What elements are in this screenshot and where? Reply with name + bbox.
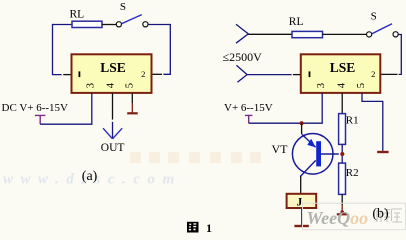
svg-text:J: J [297,196,303,208]
wire pin5 to ground (b) [362,93,383,151]
svg-text:VT: VT [272,142,289,156]
svg-text:RL: RL [289,16,304,28]
switch S blade (a) [122,15,142,24]
input terminal chevron lower (b) [236,65,247,82]
pin 1 (b) [309,71,311,77]
arrowhead OUT (a) [103,128,122,139]
wire switch to right corner (a) [148,24,170,26]
watermark faint orange row (center) [130,152,261,163]
wire top-left to resistor RL (a) [53,24,73,26]
wire left vertical (a) [53,24,62,75]
svg-text:OUT: OUT [101,142,125,154]
junction node base/R1/R2 (b) [340,152,344,156]
svg-text:5: 5 [125,83,136,88]
wire resistor to switch (a) [102,24,116,26]
junction node emitter/V+ (b) [300,121,304,125]
ground R2 (b) [337,213,347,215]
wire right vertical (a) [163,24,170,74]
figure caption 图 1 [187,221,212,235]
resistor RL (b) [292,31,323,37]
switch S throw contact (a) [143,22,148,27]
watermark WeeQoo box [303,203,406,230]
input terminal chevron top (b) [236,24,248,43]
svg-text:5: 5 [356,83,367,88]
wire emitter vertical (b) [301,123,303,134]
svg-text:LSE: LSE [330,60,356,75]
svg-text:3: 3 [85,83,96,88]
svg-text:2: 2 [371,69,375,79]
relay J body [287,194,317,208]
resistor RL (a) [72,21,102,27]
switch S throw contact (b) [393,32,398,37]
wire terminal to resistor RL (b) [248,33,292,35]
supply tick (b) [245,115,253,123]
svg-text:DC V+ 6--15V: DC V+ 6--15V [2,102,69,114]
switch S pole contact (a) [116,22,121,27]
wire pin4 output vertical (a) [112,93,114,120]
transistor Q1 VT circle [292,134,333,175]
resistor R1 [339,114,346,145]
svg-text:(b): (b) [372,207,389,222]
wire pin3 vertical (a) [91,93,93,125]
transistor VT base bar [316,141,321,166]
wire pin3 vertical (b) [321,93,323,124]
switch S blade (b) [372,24,392,34]
wire pin4 vertical (b) [341,93,343,114]
wire R1 to R2 (b) [341,144,343,163]
svg-text:3: 3 [316,83,327,88]
watermark CJK glyphs [377,209,402,222]
wire supply to pin3 (b) [249,122,323,124]
svg-text:RL: RL [70,9,85,21]
transistor VT collector lead [300,160,316,176]
transistor VT emitter lead [302,134,316,147]
transistor VT emitter arrowhead [307,139,315,148]
supply tick (a) [35,115,45,124]
svg-text:(a): (a) [82,169,98,184]
svg-text:≤2500V: ≤2500V [223,50,263,64]
svg-text:4: 4 [337,82,348,88]
wire pin2 stub (a) [152,73,162,75]
svg-text:WeeQoo: WeeQoo [307,208,369,228]
ground J (b) [294,225,308,227]
ground (a) [127,112,138,114]
junction node R2 ground (b) [340,210,344,214]
svg-text:S: S [371,10,377,22]
wire pin1 stub (b) [293,74,301,76]
svg-text:2: 2 [141,69,145,79]
wire J to ground (b) [301,208,303,225]
wire pin2 stub (b) [381,73,398,75]
svg-text:S: S [120,1,126,13]
svg-text:R1: R1 [346,115,359,127]
pin 1 (a) [79,71,81,77]
switch S pole contact (b) [367,32,372,37]
svg-text:1: 1 [206,221,212,234]
transistor VT base lead [321,153,339,155]
wire terminal to pin1 (b) [247,74,292,76]
svg-text:LSE: LSE [100,60,126,75]
wire pin5 to ground (a) [131,93,133,103]
ground pin5 (b) [377,151,388,153]
svg-text:V+ 6--15V: V+ 6--15V [224,102,273,114]
resistor R2 [339,163,346,194]
wire R2 to ground (b) [341,194,343,205]
svg-text:R2: R2 [346,167,359,179]
wire switch to right corner (b) [398,35,401,75]
wire supply to pin3 (a) [40,123,92,125]
wire pin1 stub (a) [63,74,71,76]
op-amp module U1 LSE (b) body [301,54,381,93]
wire collector vertical (b) [300,176,302,193]
svg-text:4: 4 [106,82,117,88]
wire resistor to switch (b) [323,33,367,35]
op-amp module U1 LSE (a) body [72,54,152,93]
